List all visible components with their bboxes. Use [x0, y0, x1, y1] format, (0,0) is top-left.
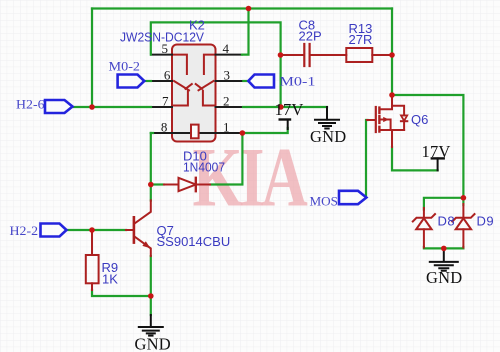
relay K2 right contact tick	[196, 84, 202, 89]
mosfet Q6 body lead with arrow	[380, 120, 391, 131]
svg-text:GND: GND	[310, 127, 346, 146]
zener D8 top lead	[423, 208, 425, 217]
svg-text:H2-2: H2-2	[10, 223, 39, 238]
ground GND stem near relay	[326, 107, 328, 120]
resistor R9	[86, 255, 99, 283]
capacitor C8 right lead	[311, 54, 346, 56]
ground GND bars bottom left	[139, 327, 163, 336]
power 17V bar near Q6	[432, 157, 444, 159]
wire pin1 to 17V	[242, 128, 287, 133]
resistor R9 bottom lead	[91, 283, 93, 290]
port H2-6	[45, 100, 73, 113]
pin 6	[151, 80, 172, 82]
relay K2 right armature from pin 3	[199, 81, 214, 90]
node D9 top junction	[461, 195, 467, 201]
relay K2 coil pin 1 internal lead	[199, 132, 216, 134]
wire M0-2 stub	[144, 80, 151, 82]
ground GND stem bottom right	[443, 248, 445, 261]
svg-text:KIA: KIA	[193, 131, 308, 225]
port H2-2	[41, 224, 67, 237]
zener D9 bottom lead	[462, 229, 464, 247]
zener D8 triangle	[416, 218, 431, 229]
resistor R13	[346, 48, 372, 62]
wire pin5 over-the-top to pin2 node	[151, 22, 281, 107]
zener D9 cathode bar with wings	[452, 214, 474, 221]
svg-text:D9: D9	[477, 214, 495, 229]
wire D8 branch	[424, 198, 464, 210]
power 17V stem near Q6	[437, 158, 439, 170]
svg-text:27R: 27R	[349, 32, 373, 47]
relay K2 left armature from pin 6	[174, 81, 189, 90]
zener D8 cathode bar with wings	[413, 214, 435, 221]
capacitor C8 left lead	[282, 54, 303, 56]
mosfet Q6 channel segments	[378, 108, 380, 132]
svg-text:3: 3	[224, 68, 231, 83]
zener D9 triangle	[456, 218, 471, 229]
resistor R9 top lead	[91, 232, 93, 256]
mosfet Q6 gate lead	[367, 119, 375, 121]
svg-text:2: 2	[223, 94, 230, 109]
transistor Q7 base bar	[133, 217, 136, 242]
node H2-6 junction	[89, 104, 95, 110]
wire right vertical to Q6 drain	[391, 9, 393, 96]
zener D9 top lead	[462, 204, 464, 217]
pin 8	[153, 132, 172, 134]
mosfet Q6 source connection	[380, 129, 404, 131]
wire R9 bottom	[92, 290, 151, 296]
node H2-2 junction	[89, 227, 95, 233]
node Q6 drain junction	[389, 92, 395, 98]
mosfet Q6 body diode	[392, 106, 404, 116]
wire D10 anode node to Q7 collector	[150, 185, 152, 201]
relay K2 coil	[191, 125, 199, 139]
wire zener bottoms	[424, 247, 464, 248]
port M0-2	[118, 75, 145, 88]
svg-text:1: 1	[223, 120, 230, 135]
relay K2 left contact tick	[186, 84, 192, 89]
svg-text:17V: 17V	[422, 142, 451, 161]
svg-text:M0-1: M0-1	[280, 74, 316, 89]
svg-text:4: 4	[223, 41, 230, 56]
svg-text:Q6: Q6	[411, 112, 428, 127]
wire pin2 to GND	[243, 106, 327, 108]
wire D10 anode short	[151, 183, 164, 185]
node pin1 junction	[240, 130, 246, 136]
relay K2 right fixed contact from pin 4	[204, 55, 216, 74]
ground GND bars near relay	[315, 120, 339, 129]
wire H2-2 to Q7 base	[67, 229, 127, 231]
diode D10 cathode bar	[195, 178, 197, 191]
wire pin8 down to D10 anode node	[150, 133, 152, 185]
port MOS	[339, 191, 366, 204]
pin 3	[216, 80, 244, 82]
svg-text:1N4007: 1N4007	[183, 160, 225, 175]
pin 2	[216, 106, 244, 108]
svg-text:5: 5	[162, 41, 169, 56]
wire pin4 drop	[242, 9, 249, 55]
pin 4	[216, 54, 243, 56]
relay K2 left fixed contact from pin 5	[172, 55, 187, 74]
node C8 tap junction	[278, 52, 284, 58]
port M0-1	[248, 75, 274, 88]
svg-text:GND: GND	[135, 335, 171, 352]
svg-text:17V: 17V	[275, 100, 304, 119]
svg-text:MOS: MOS	[310, 194, 339, 209]
node R13 right junction	[389, 52, 395, 58]
wire pin1 down to D10 cathode	[210, 133, 242, 185]
svg-text:8: 8	[161, 120, 168, 135]
wire pin3 stub to M0-1	[243, 80, 248, 82]
svg-text:7: 7	[162, 94, 169, 109]
diode D10 anode lead	[164, 184, 179, 186]
node pin2 17V junction	[278, 104, 284, 110]
ground GND bars bottom right	[430, 262, 458, 271]
svg-text:22P: 22P	[299, 29, 322, 44]
relay K2 left pivot from pin 7	[172, 91, 188, 106]
pin 7	[151, 106, 172, 108]
diode D10 cathode lead	[196, 184, 210, 186]
power 17V stem near relay	[287, 120, 289, 130]
mosfet Q6 drain connection	[380, 96, 392, 110]
wire pin8 stub	[151, 132, 153, 134]
transistor Q7 emitter	[135, 237, 151, 257]
transistor Q7 base lead	[126, 229, 133, 231]
wire left vertical to H2-6 node	[91, 9, 93, 108]
wire Q7 emitter to GND	[150, 256, 152, 315]
wire Q6 source to 17V	[392, 147, 438, 170]
node D10 anode junction	[148, 182, 154, 188]
relay K2 body	[172, 45, 216, 142]
wire Q6 drain to right edge	[392, 95, 463, 198]
wire MOS port up to Q6 gate	[366, 120, 368, 197]
svg-text:H2-6: H2-6	[16, 97, 45, 112]
svg-text:M0-2: M0-2	[109, 59, 141, 74]
zener D8 bottom lead	[423, 229, 425, 247]
pin 5	[151, 54, 172, 56]
svg-text:SS9014CBU: SS9014CBU	[157, 234, 231, 249]
wire H2-6 to pin 7	[73, 106, 152, 108]
relay K2 coil pin 8 internal lead	[172, 132, 191, 134]
diode D10 triangle	[179, 178, 196, 191]
capacitor C8 plates	[304, 44, 309, 66]
resistor R13 right lead	[372, 54, 391, 56]
svg-text:D8: D8	[438, 214, 456, 229]
pin 1	[216, 132, 243, 134]
relay K2 right pivot from pin 2	[203, 91, 216, 106]
power 17V bar near relay	[280, 118, 290, 120]
mosfet Q6 gate bar	[375, 107, 377, 132]
svg-text:GND: GND	[426, 268, 462, 287]
node zener GND junction	[441, 246, 447, 252]
transistor Q7 collector	[135, 200, 151, 223]
ground GND stem bottom left	[150, 315, 152, 327]
svg-text:1K: 1K	[102, 272, 118, 287]
wire D9 top stub	[462, 198, 464, 205]
node emitter R9 junction	[148, 293, 154, 299]
transistor Q7 emitter arrow	[142, 241, 150, 248]
wire top horizontal	[92, 7, 392, 9]
svg-text:6: 6	[164, 68, 171, 83]
node top pin4 junction	[246, 6, 252, 12]
